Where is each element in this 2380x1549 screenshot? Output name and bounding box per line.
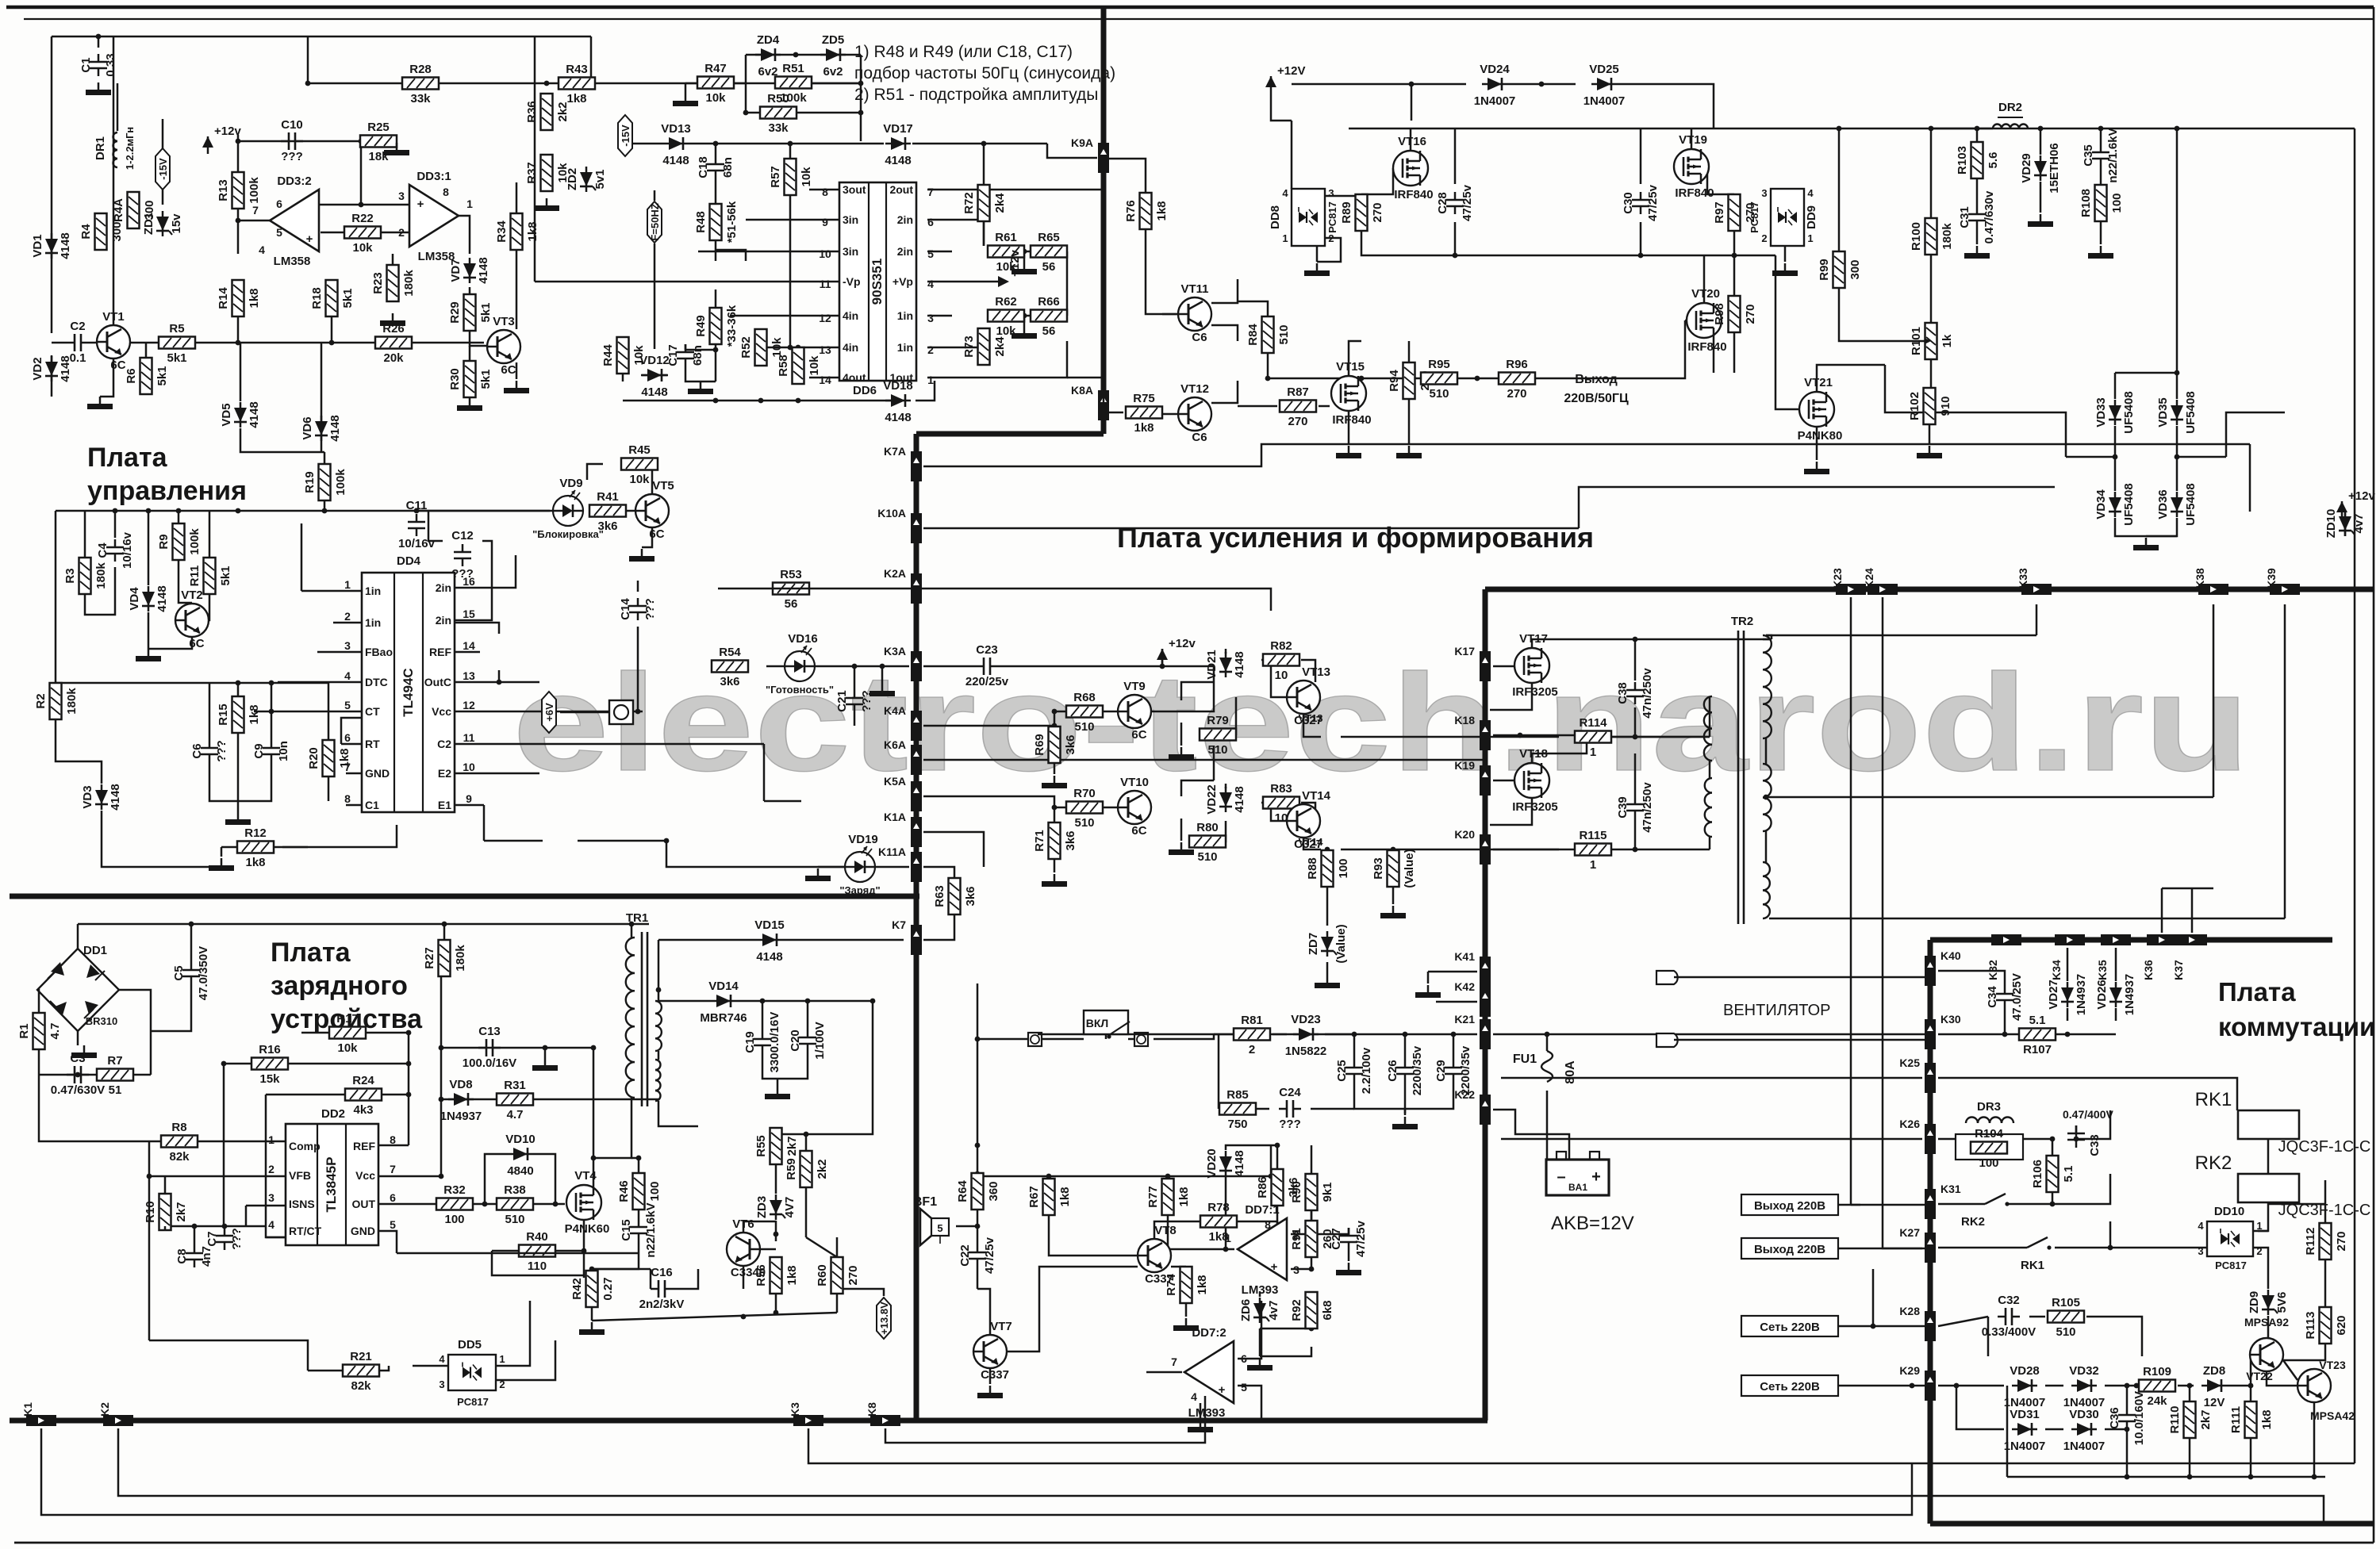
ground <box>805 868 831 881</box>
resistor R79 <box>1200 714 1236 757</box>
svg-text:VD2: VD2 <box>31 357 44 380</box>
MOSFET VT18 <box>1512 747 1558 814</box>
svg-text:K36: K36 <box>2142 960 2155 980</box>
wire VT22 base <box>2250 1355 2251 1386</box>
wire C19 col <box>762 1001 764 1031</box>
wire K23 to out1 <box>1851 1204 1860 1206</box>
svg-text:Плата усиления и формирования: Плата усиления и формирования <box>1117 521 1594 554</box>
svg-text:R22: R22 <box>351 212 374 225</box>
svg-text:BR310: BR310 <box>86 1015 117 1027</box>
wire ВКЛ right <box>1154 1034 1214 1039</box>
wire R55 col <box>775 1128 777 1134</box>
wire bridge left <box>37 990 39 1015</box>
svg-text:DR1: DR1 <box>94 136 107 160</box>
wire R84 col <box>1238 301 1268 316</box>
terminal box Выход 220В (2) <box>1741 1238 1838 1259</box>
wire f50hz bot <box>654 243 656 349</box>
svg-text:n22/1.6kV: n22/1.6kV <box>644 1202 658 1257</box>
wire VD19 gnd <box>818 866 845 868</box>
node K29 <box>1899 1364 1936 1401</box>
svg-text:VD21: VD21 <box>1205 650 1219 680</box>
wire fan1 <box>1674 976 1930 979</box>
wire VD6 up <box>321 343 323 415</box>
wire BF1 link <box>956 1225 977 1228</box>
ground <box>380 313 405 326</box>
svg-text:4840: 4840 <box>507 1164 533 1178</box>
wire C26 bot <box>1404 1082 1407 1114</box>
svg-text:2k7: 2k7 <box>2199 1409 2213 1429</box>
wire VD17 row <box>912 141 1047 147</box>
wire R80 row <box>1190 821 1226 842</box>
wire DD2 REF <box>378 1144 409 1147</box>
svg-text:3: 3 <box>268 1191 274 1204</box>
MOSFET VT15 <box>1331 360 1372 427</box>
svg-text:R21: R21 <box>350 1350 372 1363</box>
net tag -15V <box>618 115 632 156</box>
svg-text:14: 14 <box>819 374 831 386</box>
wwire R74 col <box>1185 1266 1188 1268</box>
node K2 <box>98 1402 133 1426</box>
svg-text:UF5408: UF5408 <box>2184 483 2198 525</box>
svg-text:220/25v: 220/25v <box>965 675 1009 688</box>
svg-text:K34: K34 <box>2050 960 2063 980</box>
svg-text:C32: C32 <box>1998 1294 2020 1307</box>
wire Vcc up C14 <box>635 627 641 714</box>
resistor R23 <box>371 265 416 301</box>
svg-text:K40: K40 <box>1940 949 1961 962</box>
diode VD10 <box>505 1133 535 1178</box>
svg-text:R19: R19 <box>303 471 317 493</box>
resistor R71 <box>1033 822 1077 859</box>
wire top rail vd24 <box>1292 82 1466 87</box>
wire dd72 gnd <box>1200 1403 1202 1420</box>
svg-text:R44: R44 <box>601 344 615 366</box>
svg-text:VT6: VT6 <box>732 1217 754 1231</box>
svg-text:270: 270 <box>1371 202 1384 222</box>
wire +12 riser <box>1161 649 1164 666</box>
node K10A <box>877 507 922 543</box>
svg-text:2: 2 <box>1328 232 1334 244</box>
svg-text:2.2/100v: 2.2/100v <box>1360 1047 1373 1094</box>
wire R62 R66 row <box>988 313 1067 319</box>
svg-text:VD32: VD32 <box>2069 1364 2099 1378</box>
wire R9 bot VT2 <box>178 560 192 603</box>
svg-text:R82: R82 <box>1270 639 1292 653</box>
wire right of bridge <box>119 990 151 1075</box>
wire VT5 collector <box>652 464 658 494</box>
wire TR2 right link <box>1765 738 1768 764</box>
svg-text:56: 56 <box>785 597 798 611</box>
wire R30 down gnd <box>469 346 471 397</box>
svg-text:R59: R59 <box>785 1158 798 1180</box>
svg-text:4: 4 <box>927 278 934 290</box>
svg-text:+12v: +12v <box>1008 249 1022 276</box>
wire charger left col <box>39 1075 149 1141</box>
svg-text:510: 510 <box>1074 816 1094 830</box>
svg-text:P4NK60: P4NK60 <box>565 1222 610 1236</box>
svg-text:2k2: 2k2 <box>816 1159 829 1179</box>
svg-text:6: 6 <box>390 1191 396 1204</box>
wire K39 riser <box>2284 604 2286 918</box>
wire VT17 drain up <box>1532 639 1772 648</box>
svg-text:510: 510 <box>1277 324 1291 344</box>
capacitor C27 <box>1330 1220 1368 1257</box>
svg-text:C11: C11 <box>406 499 428 512</box>
wire VD14 row <box>658 1000 711 1003</box>
wire VD5 down <box>240 428 324 452</box>
wire C30 col <box>1640 128 1642 184</box>
svg-text:VD3: VD3 <box>81 785 94 808</box>
svg-text:1in: 1in <box>897 309 913 322</box>
relay RK2 box <box>2195 1152 2371 1219</box>
wire caps gnd <box>1404 1109 1407 1115</box>
node K27 <box>1899 1226 1936 1263</box>
ground <box>1173 1318 1199 1331</box>
resistor R9 <box>157 523 202 560</box>
transformer TR2 <box>1731 615 1753 924</box>
wire dd3 pin5 <box>321 232 344 234</box>
svg-text:1N4007: 1N4007 <box>2004 1440 2046 1453</box>
wire R105 right <box>2086 1317 2142 1356</box>
svg-text:VD23: VD23 <box>1291 1013 1321 1026</box>
svg-text:R80: R80 <box>1196 821 1219 834</box>
node K23 <box>1831 568 1866 595</box>
capacitor C3 <box>51 1052 105 1097</box>
wire R75 row <box>1104 412 1123 414</box>
wire TR1 sec mid <box>658 1051 660 1060</box>
svg-text:MBR746: MBR746 <box>700 1011 747 1025</box>
svg-text:6k8: 6k8 <box>1321 1300 1334 1320</box>
svg-text:DD6: DD6 <box>853 384 877 397</box>
resistor R50 <box>760 92 797 135</box>
capacitor C14 <box>619 598 657 620</box>
wire ZD row left <box>745 55 747 83</box>
svg-text:IRF840: IRF840 <box>1332 413 1371 427</box>
svg-text:DR2: DR2 <box>1998 101 2022 114</box>
svg-text:ZD10: ZD10 <box>2324 509 2338 539</box>
resistor R56 <box>754 1257 799 1294</box>
wire fan2 <box>1674 1039 1930 1041</box>
wire RK2 to R106 <box>2007 1202 2055 1207</box>
ground <box>1042 776 1067 788</box>
svg-text:R13: R13 <box>217 179 230 201</box>
wire RT loop <box>341 718 362 744</box>
svg-text:K23: K23 <box>1831 568 1844 589</box>
wire dd72 in6 <box>1238 1301 1261 1359</box>
fuse FU1 <box>1513 1051 1577 1084</box>
svg-text:R55: R55 <box>754 1135 768 1157</box>
diode ZD2 <box>566 167 607 192</box>
resistor R80 <box>1189 821 1226 864</box>
wire R58 col <box>797 347 800 349</box>
resistor R31 <box>497 1079 533 1121</box>
wire C9 branch <box>269 681 274 740</box>
wire C18 bot <box>715 178 717 204</box>
wire R17 row <box>301 1030 411 1036</box>
ground <box>209 858 234 871</box>
svg-text:47n/250v: 47n/250v <box>1641 668 1654 719</box>
wire DD6 pin4 +12 <box>927 281 984 283</box>
svg-text:0.47/630V: 0.47/630V <box>51 1083 105 1097</box>
svg-text:4148: 4148 <box>885 154 911 167</box>
svg-text:GND: GND <box>365 767 390 780</box>
svg-text:R108: R108 <box>2079 189 2093 217</box>
wire VT14 base <box>1269 800 1287 821</box>
resistor R95 <box>1421 358 1457 401</box>
svg-text:VD31: VD31 <box>2010 1408 2040 1421</box>
svg-text:R66: R66 <box>1038 295 1060 309</box>
TR1 secondary winding upper <box>655 1001 662 1051</box>
board title: Плата коммутации <box>2218 977 2375 1041</box>
wire K37 riser <box>2191 888 2194 933</box>
svg-text:???: ??? <box>281 150 303 163</box>
wire R13 to opamp <box>236 208 270 223</box>
wire DD2 Vcc <box>378 1174 443 1179</box>
wire C38 top <box>1633 637 1638 681</box>
wire dd71 in3 <box>1291 1267 1314 1272</box>
svg-text:K31: K31 <box>1940 1183 1961 1195</box>
svg-text:3: 3 <box>1328 187 1334 199</box>
thick bus: bottom horizontal y=1791 <box>10 1418 1487 1424</box>
resistor R52 <box>739 329 784 366</box>
wire K10A elbow <box>1579 487 2055 528</box>
wire VD12 row <box>641 374 668 377</box>
wire R46 riser <box>631 1156 641 1173</box>
wire DD6 pin8 <box>809 189 839 191</box>
svg-text:C18: C18 <box>697 156 710 178</box>
wire mid risers <box>1872 1269 1875 1326</box>
svg-text:12: 12 <box>463 699 475 711</box>
diode ZD9 <box>2248 1290 2289 1315</box>
diode VD28 <box>2004 1364 2046 1409</box>
svg-text:3: 3 <box>398 190 405 202</box>
svg-text:3: 3 <box>2198 1245 2203 1257</box>
svg-text:C12: C12 <box>451 529 474 543</box>
wire R89 bot <box>1361 231 1457 258</box>
wire R113 col2 <box>2324 1306 2327 1309</box>
wire DD4 pin stubs left <box>301 590 362 592</box>
transistor <box>2297 1369 2331 1402</box>
capacitor C35 <box>2082 128 2120 182</box>
wire VT19 drain <box>1691 128 1693 149</box>
resistor R40 <box>519 1230 555 1273</box>
wire R83-vt14 <box>1301 803 1315 825</box>
wire DD6 pin5 <box>927 251 952 253</box>
resistor R44 <box>601 337 646 374</box>
svg-text:R67: R67 <box>1027 1186 1041 1208</box>
svg-text:910: 910 <box>1939 396 1952 416</box>
wire VD2 col <box>51 355 53 397</box>
wire R21 left <box>149 1340 308 1371</box>
svg-text:10k: 10k <box>770 337 784 358</box>
wire DD4 E2 <box>455 773 539 775</box>
wire ZD row right <box>860 55 862 141</box>
svg-text:R43: R43 <box>566 63 588 76</box>
wire VT9 coll up <box>1181 682 1214 700</box>
svg-text:VT20: VT20 <box>1691 287 1720 301</box>
svg-text:ZD7: ZD7 <box>1307 933 1320 955</box>
svg-text:1N4937: 1N4937 <box>2123 974 2136 1016</box>
wire R66 right <box>1066 251 1069 316</box>
diode VD29 <box>2020 143 2061 193</box>
wire R21 row <box>308 1366 389 1371</box>
svg-text:1: 1 <box>1282 232 1288 244</box>
svg-text:VD12: VD12 <box>639 354 670 367</box>
wire C17 bot gnd <box>685 366 716 381</box>
svg-text:10n: 10n <box>277 741 290 761</box>
svg-text:VD8: VD8 <box>449 1078 472 1091</box>
wire TR2 out2 <box>1764 795 2213 800</box>
svg-text:R94: R94 <box>1388 370 1401 392</box>
transistor VT12 <box>1178 382 1211 444</box>
svg-text:R29: R29 <box>448 301 462 324</box>
wire VT18 src <box>1490 798 1532 825</box>
wire VD7-R29 <box>469 287 471 301</box>
wire left gnd link <box>2006 1386 2009 1477</box>
svg-text:3: 3 <box>439 1378 444 1390</box>
svg-text:47n/250v: 47n/250v <box>1641 782 1654 833</box>
svg-text:C19: C19 <box>743 1031 757 1053</box>
svg-text:220В/50ГЦ: 220В/50ГЦ <box>1564 392 1629 405</box>
wire R72 bot <box>983 221 985 246</box>
resistor R37 <box>525 155 570 191</box>
wire C20 bot <box>777 1052 808 1079</box>
svg-text:2in: 2in <box>897 213 913 226</box>
svg-text:R18: R18 <box>310 287 324 309</box>
resistor R75 <box>1126 392 1162 435</box>
node K41 <box>1454 950 1491 987</box>
svg-text:5k1: 5k1 <box>479 369 493 389</box>
node K31 <box>1925 1183 1961 1219</box>
resistor R42 <box>570 1271 615 1307</box>
wire C2 left <box>52 342 67 344</box>
ground <box>1011 262 1037 274</box>
wire DD6 pin6 <box>927 220 984 246</box>
svg-text:1: 1 <box>1807 232 1813 244</box>
svg-text:R42: R42 <box>570 1278 584 1300</box>
svg-text:R68: R68 <box>1073 691 1096 704</box>
svg-text:K7A: K7A <box>884 445 906 458</box>
wire out rail y162 <box>1349 126 2355 132</box>
wire FU1 bot <box>1546 1091 1549 1160</box>
wire ZD9 bot <box>2267 1316 2270 1338</box>
svg-text:C1: C1 <box>79 57 93 72</box>
wire VD10 loop r <box>533 1154 555 1204</box>
transistor VT3 <box>487 315 520 377</box>
svg-text:4148: 4148 <box>641 385 667 399</box>
svg-text:RT: RT <box>365 738 380 750</box>
svg-text:F=50HZ: F=50HZ <box>649 203 661 240</box>
svg-text:R45: R45 <box>628 443 651 457</box>
svg-text:K1A: K1A <box>884 811 906 823</box>
svg-text:R34: R34 <box>495 220 509 243</box>
resistor R108 <box>2079 185 2124 221</box>
op-amp DD7:2 LM393 <box>1171 1326 1247 1420</box>
resistor R73 <box>962 328 1007 365</box>
svg-text:VT15: VT15 <box>1336 360 1365 374</box>
svg-text:K9A: K9A <box>1071 136 1093 149</box>
capacitor C30 <box>1622 184 1660 221</box>
svg-text:4148: 4148 <box>1233 651 1246 677</box>
transistor <box>2250 1338 2283 1371</box>
svg-text:4148: 4148 <box>248 401 261 428</box>
svg-text:4: 4 <box>1191 1390 1197 1403</box>
svg-text:K1: K1 <box>21 1402 34 1417</box>
svg-text:C7: C7 <box>205 1231 219 1246</box>
wire DD7:1 out <box>1168 1248 1234 1251</box>
resistor R82 <box>1263 639 1299 682</box>
wire ВКЛ row <box>977 1038 1028 1041</box>
svg-text:1k8: 1k8 <box>566 92 586 105</box>
svg-text:R36: R36 <box>525 101 539 123</box>
svg-text:12: 12 <box>819 312 831 324</box>
svg-text:10k: 10k <box>337 1041 358 1055</box>
svg-text:VT16: VT16 <box>1398 135 1426 148</box>
wire C16 row <box>589 1267 651 1272</box>
wire R23 col <box>392 254 394 265</box>
wire R47 gnd stub <box>685 83 687 94</box>
svg-text:-Vp: -Vp <box>843 275 861 288</box>
button square <box>609 700 633 724</box>
wire DR1 col <box>117 83 119 131</box>
wire VT22-VT23 <box>2283 1360 2297 1380</box>
svg-text:2k4: 2k4 <box>993 193 1007 213</box>
svg-text:VD26: VD26 <box>2095 980 2109 1010</box>
svg-text:180k: 180k <box>1940 223 1954 250</box>
wire VT8 emit <box>1171 1266 1186 1268</box>
svg-text:VD1: VD1 <box>31 234 44 257</box>
ground <box>1169 747 1194 760</box>
wire K4A right <box>923 723 1057 729</box>
op-amp DD7:1 LM393 <box>1225 1203 1299 1297</box>
resistor R54 <box>712 646 748 688</box>
board title: Плата зарядного устройства <box>271 937 423 1034</box>
resistor R30 <box>448 361 493 397</box>
battery BA1 AKB=12V <box>1546 1152 1634 1234</box>
svg-text:1in: 1in <box>365 585 381 597</box>
wire R106 col <box>2052 1139 2054 1156</box>
svg-text:C2: C2 <box>437 738 451 750</box>
wire VT8 coll <box>1154 1221 1219 1239</box>
ground <box>71 1045 97 1058</box>
wire DD4 C2 <box>455 743 764 746</box>
wire R13 col <box>236 135 241 208</box>
capacitor C21 <box>835 690 873 712</box>
svg-text:5: 5 <box>927 247 934 260</box>
svg-text:180k: 180k <box>94 562 108 589</box>
wire C22 bot <box>977 1267 979 1289</box>
wire VT20 src <box>1713 338 1715 373</box>
svg-text:VT7: VT7 <box>990 1320 1012 1333</box>
svg-text:K8: K8 <box>866 1402 878 1417</box>
svg-text:33k: 33k <box>410 92 431 105</box>
svg-text:R27: R27 <box>423 947 436 969</box>
transistor VT8 <box>1138 1224 1177 1286</box>
resistor R1 <box>17 1013 62 1049</box>
capacitor C13 <box>463 1025 516 1070</box>
wire VD8 R31 row <box>441 1098 658 1101</box>
svg-text:R77: R77 <box>1146 1186 1160 1208</box>
transistor VT7 <box>973 1320 1012 1382</box>
wire R11 col <box>209 511 211 558</box>
svg-text:K39: K39 <box>2265 568 2278 589</box>
svg-text:9: 9 <box>466 792 472 805</box>
wire ZD8 row <box>2201 1385 2203 1387</box>
wire R20 bot <box>328 776 330 801</box>
svg-text:180k: 180k <box>454 945 467 972</box>
wire bridge top link <box>2115 372 2177 374</box>
wire R68 row <box>1052 709 1066 715</box>
